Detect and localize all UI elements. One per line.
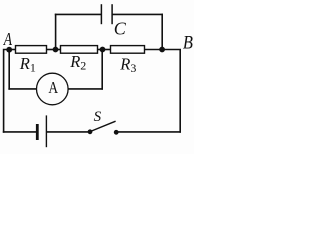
node A junction dot [6,47,12,53]
wire: capacitor branch right vertical [161,14,163,49]
wire: battery to switch [47,131,90,133]
svg-text:R3: R3 [119,54,136,75]
svg-text:C: C [114,19,127,39]
wire: R3 to corner B and down right side [145,50,181,132]
resistor R3 [111,46,145,54]
switch S lever [90,121,116,131]
resistor R2 [61,46,98,54]
wire: left outer vertical from node A down to bottom loop [4,50,10,132]
wire: bottom left to battery [4,131,36,133]
svg-text:B: B [183,31,193,52]
switch right contact dot [114,130,119,135]
wire: between R2 and R3 [98,49,111,51]
wire: capacitor branch left vertical [55,14,57,49]
wire: between R1 and R2 [47,49,61,51]
junction dot between R2 and R3 [100,47,106,53]
wire: ammeter branch left vertical [8,50,10,89]
svg-text:A: A [3,31,12,50]
wire: capacitor branch top right horizontal [113,13,162,15]
resistor R1 [16,46,47,54]
junction dot between R1 and R2 [53,47,59,53]
wire: ammeter branch right vertical [101,50,103,89]
junction dot right of R3 [159,47,165,53]
wire: capacitor branch top left horizontal [56,13,101,15]
svg-text:A: A [48,80,58,98]
ammeter U1 circle [37,73,69,105]
wire: switch to right corner [116,131,180,133]
battery plates [37,115,46,147]
wire: ammeter branch right horizontal [68,88,102,90]
wire: main horizontal A to R1 [9,49,15,51]
switch left contact dot [88,129,93,134]
wire: ammeter branch left horizontal [9,88,36,90]
capacitor C plates [101,4,112,24]
svg-text:R1: R1 [19,54,36,75]
svg-text:S: S [94,109,102,125]
svg-text:R2: R2 [69,52,86,73]
